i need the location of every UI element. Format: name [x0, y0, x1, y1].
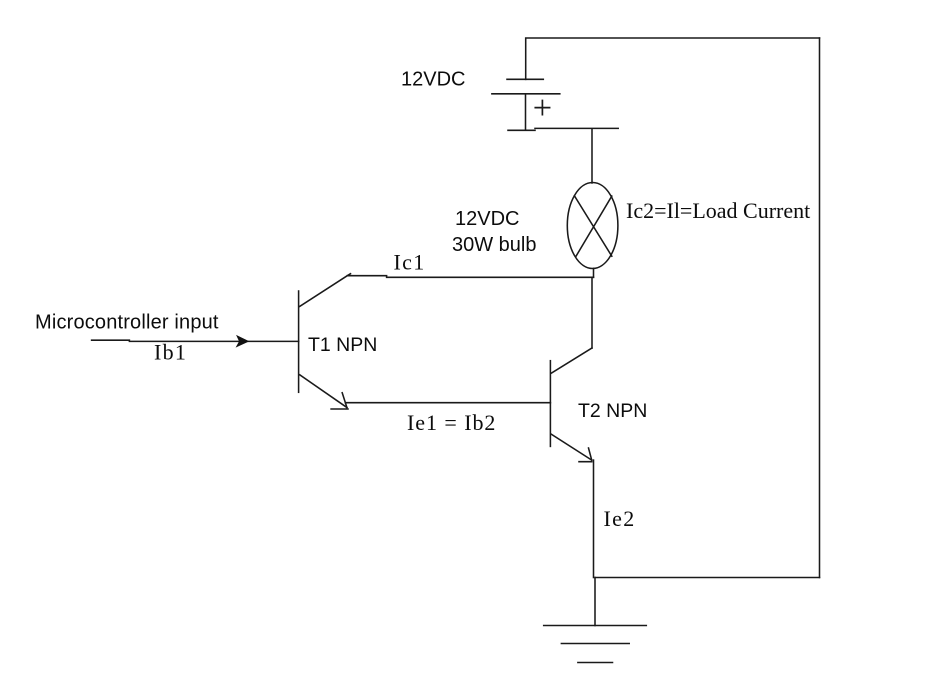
- svg-text:Ic2=Il=Load Current: Ic2=Il=Load Current: [626, 198, 810, 223]
- wire top rail: [526, 38, 820, 79]
- svg-text:Ie2: Ie2: [604, 506, 636, 531]
- label Ie2: [604, 506, 636, 531]
- wire bottom rail: [595, 577, 820, 579]
- transistor T2 collector: [552, 348, 593, 373]
- label Microcontroller input: [35, 312, 219, 334]
- wire T2 emitter down: [593, 460, 595, 577]
- transistor T2 emitter: [551, 434, 592, 462]
- transistor T1 emitter: [300, 375, 348, 409]
- wire battery internal: [525, 94, 527, 130]
- wire right rail: [819, 38, 821, 578]
- svg-text:12VDC: 12VDC: [455, 208, 519, 230]
- label T1 NPN: [308, 334, 377, 356]
- wire T1 emitter to T2 base: [345, 402, 550, 404]
- battery 12VDC bottom plate: [508, 129, 535, 131]
- lamp 30W bulb: [567, 183, 618, 269]
- wire battery positive to lamp: [535, 128, 618, 183]
- label 12VDC battery: [401, 69, 465, 91]
- transistor T2 base bar: [549, 361, 551, 447]
- wire lamp bottom junction: [593, 268, 595, 277]
- wire ground stem: [594, 578, 596, 626]
- label Ic2=Il=Load Current: [626, 198, 810, 223]
- battery 12VDC long plate: [492, 93, 560, 95]
- ground: [544, 626, 647, 663]
- wire microcontroller input: [92, 340, 299, 341]
- arrow Ib1: [237, 336, 249, 347]
- svg-text:30W bulb: 30W bulb: [452, 234, 537, 256]
- label 12VDC 30W bulb: [452, 208, 537, 256]
- battery 12VDC top plate: [507, 78, 543, 80]
- label T2 NPN: [578, 400, 647, 422]
- label Ie1 = Ib2: [407, 410, 496, 435]
- battery plus sign: [535, 101, 549, 115]
- svg-text:Microcontroller input: Microcontroller input: [35, 312, 219, 334]
- transistor T1 base bar: [298, 291, 300, 392]
- svg-text:T1 NPN: T1 NPN: [308, 334, 377, 356]
- svg-text:12VDC: 12VDC: [401, 69, 465, 91]
- svg-text:Ie1 = Ib2: Ie1 = Ib2: [407, 410, 496, 435]
- svg-text:Ic1: Ic1: [394, 250, 426, 275]
- svg-text:Ib1: Ib1: [154, 340, 187, 365]
- label Ic1: [394, 250, 426, 275]
- wire T1 collector to lamp: [347, 276, 593, 278]
- transistor T1 collector: [300, 274, 351, 307]
- svg-text:T2 NPN: T2 NPN: [578, 400, 647, 422]
- wire lamp to T2 collector: [591, 277, 593, 348]
- label Ib1: [154, 340, 187, 365]
